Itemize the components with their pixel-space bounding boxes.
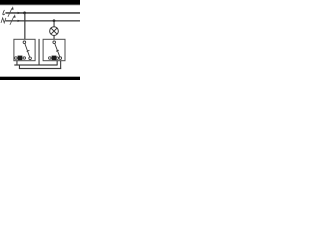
wire from switch box 1 bottom to lower run: [16, 61, 17, 65]
wire L (phase) horizontal: [5, 12, 80, 14]
switch S2 lever tick: [56, 50, 59, 51]
switch S2 contact block: [52, 56, 57, 61]
arrowhead N feeding lamp/switch net: [18, 20, 21, 22]
wire from switch box 2 bottom to run 2: [60, 61, 61, 69]
switch box 2 (wall box outline): [43, 39, 65, 60]
branch from run 1 down to run 2: [19, 65, 20, 69]
wire from N down to lamp E1: [54, 21, 55, 27]
switch S2 left terminal: [49, 57, 52, 60]
switch S1 lever: [25, 43, 30, 57]
riser between boxes to run 1: [39, 39, 40, 65]
label L (script ell): [3, 10, 5, 15]
lamp E1 (circle with X): [50, 27, 59, 36]
lower wire run 2 (lamp return): [19, 68, 61, 69]
wire N (neutral) horizontal: [5, 20, 80, 21]
switch S1 mid terminal: [23, 57, 25, 59]
wire from switch box 2 bottom to run 1: [57, 61, 58, 65]
lower wire run 1 (correspondents): [14, 64, 57, 65]
switch S1 contact block: [18, 56, 23, 61]
wire drop from L to switch box 1: [24, 13, 25, 39]
label N: [1, 18, 6, 23]
switch S2 mid terminal: [56, 57, 58, 59]
switch box 1 (wall box outline): [14, 39, 35, 60]
junction dot on L at drop to switch 1: [23, 12, 26, 15]
wire from lamp down into switch box 2: [54, 35, 55, 39]
arrow on wire N (incoming supply): [10, 14, 16, 24]
switch S1 lever contact terminal: [29, 57, 32, 60]
switch S2 lever contact terminal: [59, 57, 62, 60]
switch S1 left terminal: [15, 57, 18, 60]
switch S2 lever: [55, 43, 60, 56]
switch S1 pivot terminal: [23, 41, 26, 44]
arrow on wire L (incoming supply): [8, 6, 14, 16]
top letterbox band: [0, 0, 80, 5]
background: [0, 0, 80, 80]
switch S1 lever tick: [27, 50, 30, 51]
bottom letterbox band: [0, 76, 80, 80]
arrowhead L feeding drop: [18, 12, 21, 14]
junction dot on N at lamp drop: [53, 19, 56, 22]
switch S2 pivot terminal: [53, 41, 56, 44]
